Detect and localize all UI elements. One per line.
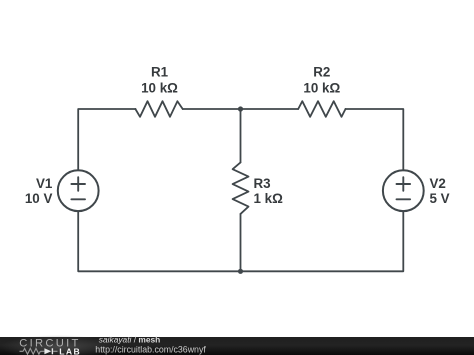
svg-text:LAB: LAB [59, 346, 81, 355]
wire W6: R3 bottom lead to node B [240, 214, 242, 271]
wire W1: V1 plus terminal up and right to R1 left lead [78, 109, 135, 170]
svg-text:http://circuitlab.com/c36wnyf: http://circuitlab.com/c36wnyf [95, 344, 206, 354]
logo mini wire left [20, 350, 24, 352]
logo mini wire right [53, 350, 57, 352]
wire W2: R1 right lead to node A [183, 108, 241, 110]
wire W5: node A down to R3 top lead [240, 109, 242, 162]
resistor R1 zigzag [135, 101, 182, 117]
wire W8: node B right and up to V2 minus terminal [241, 211, 404, 271]
footer bar background [0, 337, 474, 355]
svg-text:R1: R1 [151, 65, 169, 80]
voltage source V1 circle [58, 170, 99, 211]
resistor R2 zigzag [298, 101, 345, 117]
svg-text:saikayati / mesh: saikayati / mesh [99, 334, 160, 344]
V1 plus sign [71, 177, 85, 191]
logo mini diode triangle [44, 348, 51, 354]
svg-text:R2: R2 [313, 65, 330, 80]
svg-text:R3: R3 [254, 176, 271, 191]
resistor R3 zigzag [233, 162, 249, 214]
svg-text:10 V: 10 V [25, 191, 53, 206]
svg-text:10 kΩ: 10 kΩ [141, 81, 178, 96]
logo mini diode bar [51, 348, 53, 354]
svg-text:V1: V1 [36, 176, 53, 191]
svg-text:10 kΩ: 10 kΩ [303, 81, 340, 96]
svg-text:5 V: 5 V [430, 191, 450, 206]
wire W7: V1 minus terminal down and right to node B [78, 211, 240, 271]
voltage source V2 circle [383, 170, 424, 211]
V2 minus sign [397, 198, 411, 200]
svg-text:V2: V2 [430, 176, 446, 191]
wire W4: R2 right lead right and down to V2 plus terminal [346, 109, 404, 170]
node B junction dot [238, 269, 243, 274]
wire W3: node A to R2 left lead [241, 108, 299, 110]
V1 minus sign [71, 198, 85, 200]
V2 plus sign [397, 177, 411, 191]
node A junction dot [238, 106, 243, 111]
svg-text:1 kΩ: 1 kΩ [254, 191, 284, 206]
logo mini wire middle [40, 350, 44, 352]
footer logo glow [0, 335, 116, 355]
logo mini resistor zigzag [23, 348, 40, 354]
